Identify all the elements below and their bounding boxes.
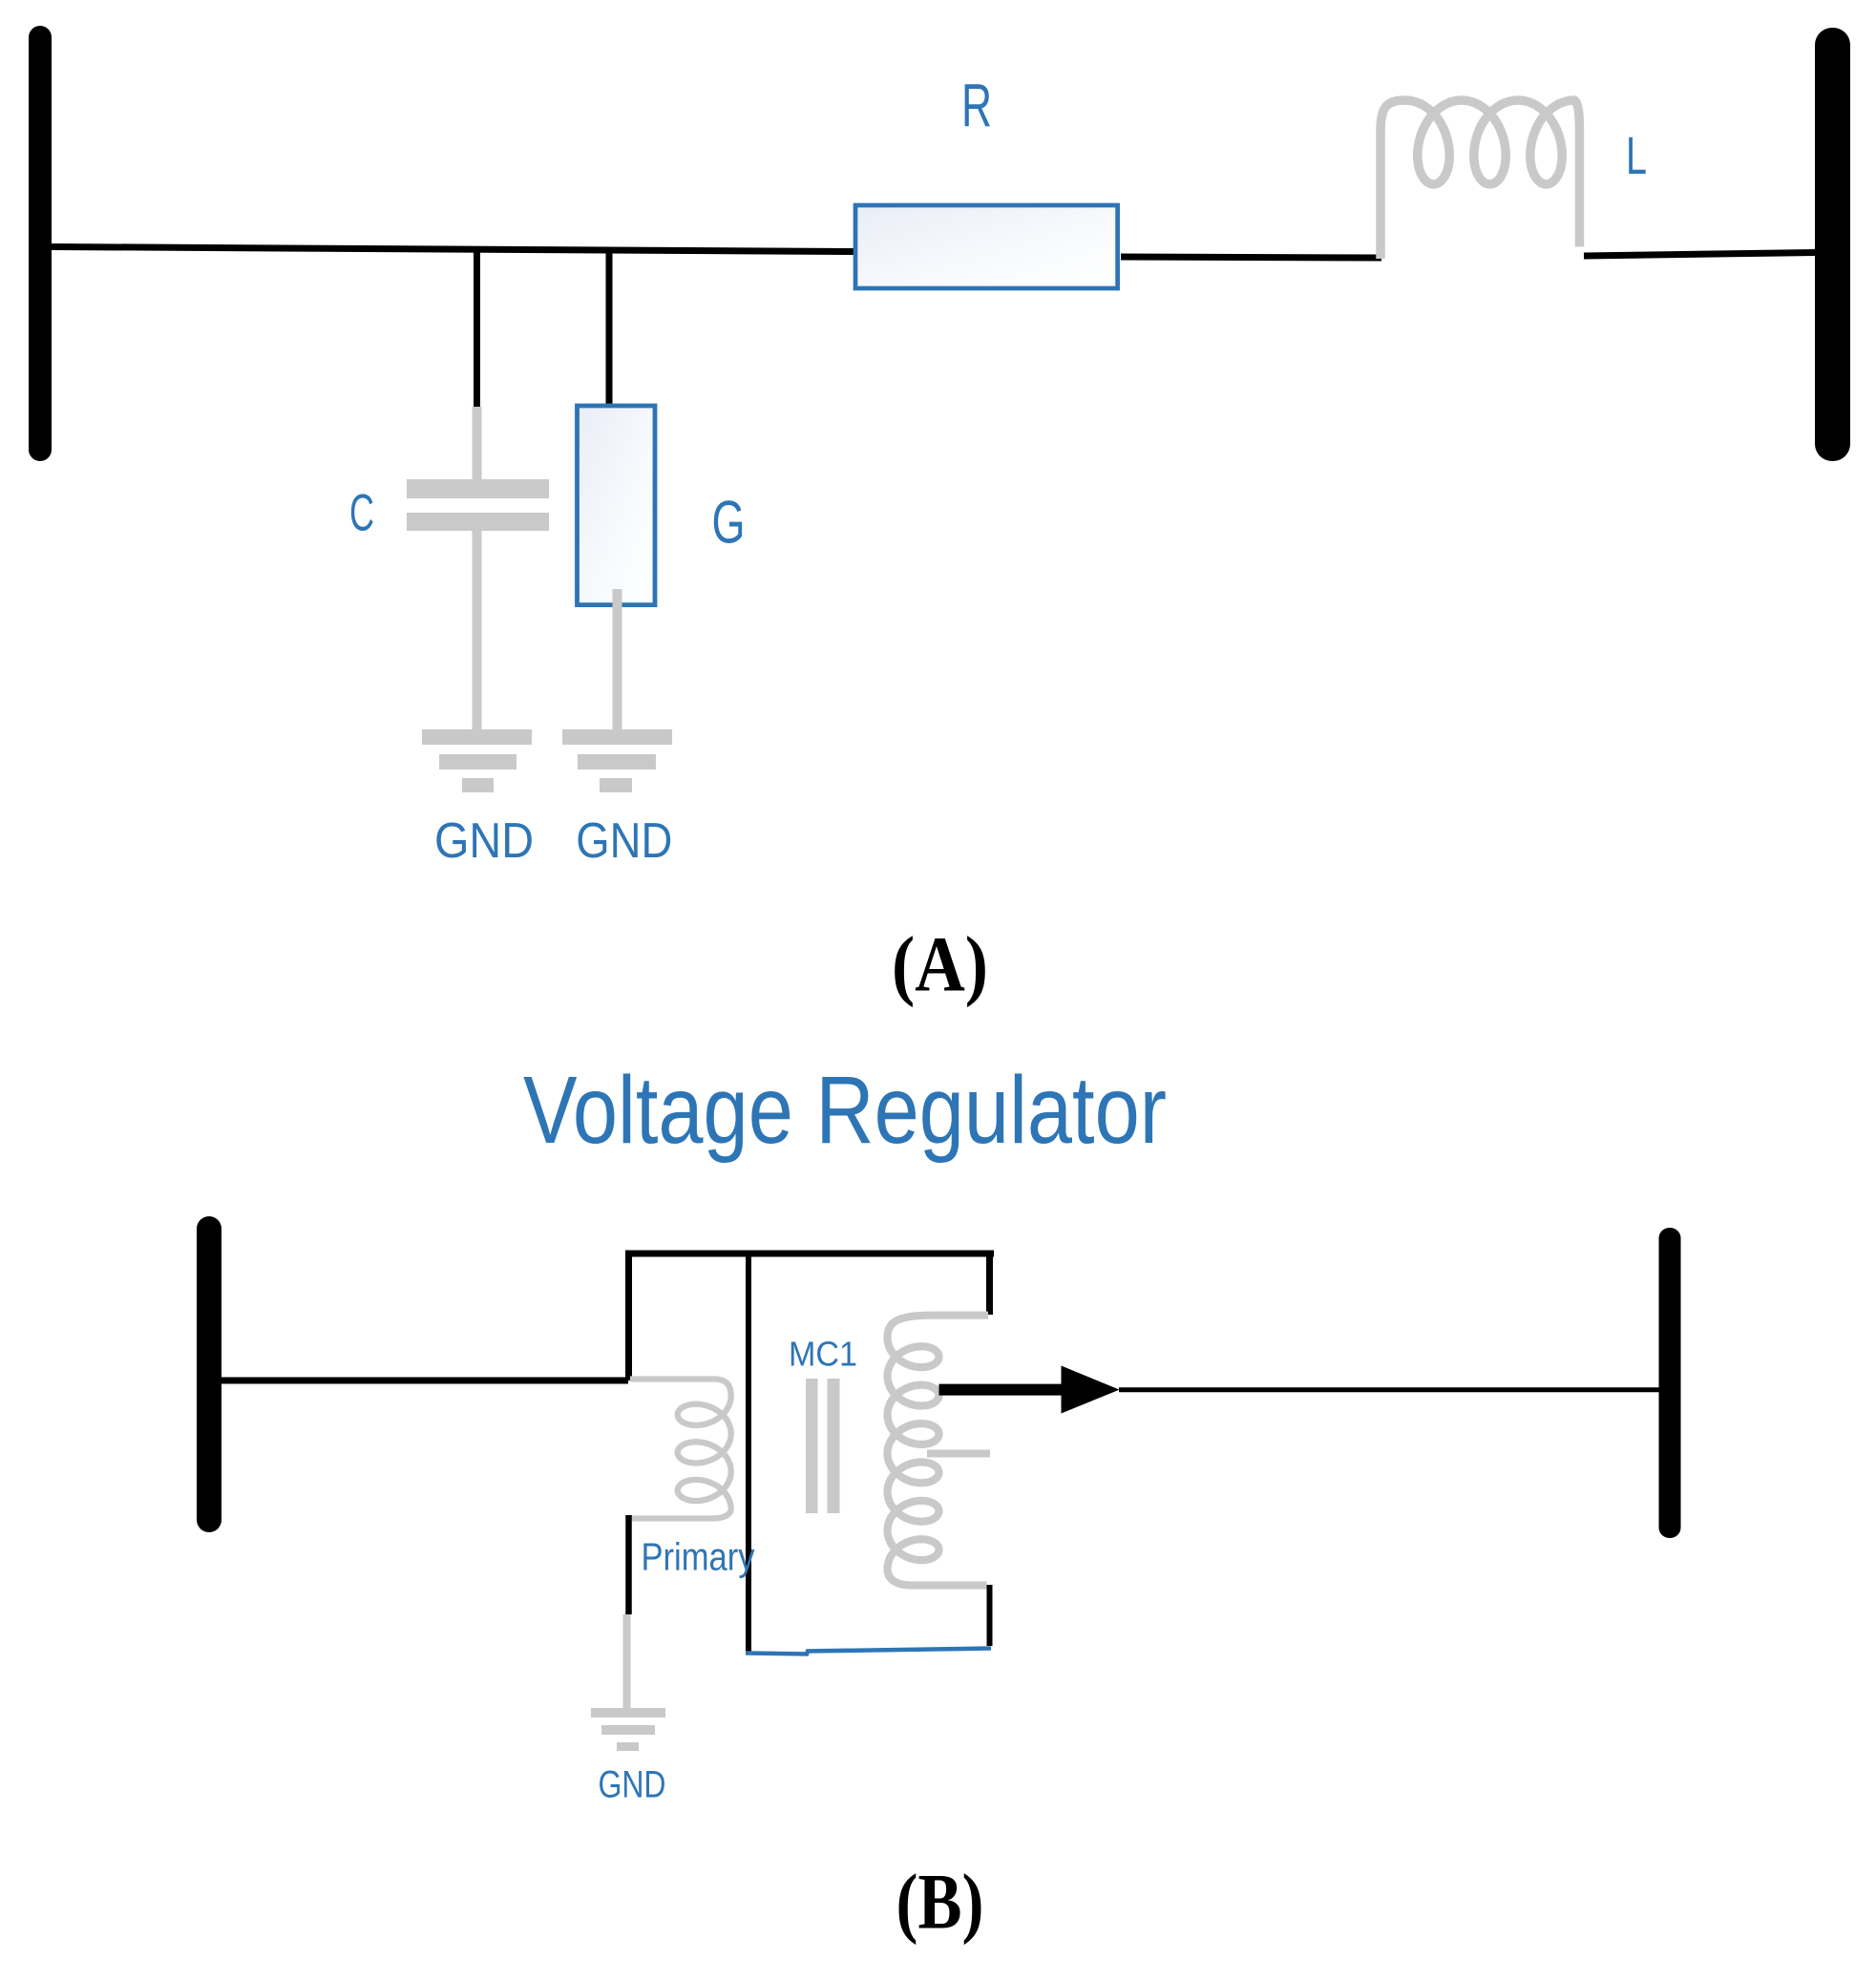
wire: primary bottom to ground lead [625,1515,632,1614]
svg-text:R: R [961,72,992,140]
wire: junction drop to capacitor C [474,247,480,409]
busbar right (section A) [1815,28,1850,461]
svg-text:C: C [349,483,374,542]
wire: inductor L to right bus [1584,253,1816,257]
ground GND (primary) [591,1708,665,1751]
transformer primary winding [630,1380,731,1519]
wire: secondary bottom stub [987,1585,993,1646]
wire: top link [625,1251,994,1257]
wire: left bus to resistor R [52,247,855,252]
wire: riser at primary top [625,1251,632,1381]
svg-text:L: L [1626,125,1647,185]
ground GND (arrester branch) [562,729,672,792]
capacitor C [407,407,549,731]
svg-text:Primary: Primary [642,1535,756,1579]
svg-text:G: G [712,490,746,557]
wire: junction drop to arrester G [606,248,613,407]
busbar left (section B) [197,1216,221,1532]
svg-text:GND: GND [599,1764,666,1806]
busbar right (section B) [1659,1228,1681,1538]
centre tap (secondary) [927,1450,990,1458]
magnetic core MC1 bars [806,1379,840,1513]
wire: centre vertical (core left) [746,1254,751,1654]
svg-text:Voltage Regulator: Voltage Regulator [523,1057,1167,1164]
svg-text:(A): (A) [892,920,988,1008]
resistor R [855,205,1118,288]
lead: arrester G to ground [613,589,622,731]
wire: stub to secondary top [986,1256,993,1315]
arrester G [578,406,656,605]
arrow output of secondary [939,1366,1660,1414]
transformer secondary winding [888,1316,989,1586]
svg-text:GND: GND [576,813,672,869]
svg-text:GND: GND [434,813,534,869]
wire: left bus to primary [221,1378,628,1384]
lead to ground (B) [623,1614,631,1709]
svg-text:(B): (B) [896,1858,984,1946]
inductor L [1381,100,1580,259]
wire: resistor R to inductor L [1121,257,1381,258]
ground GND (capacitor branch) [422,729,532,792]
svg-text:MC1: MC1 [789,1335,857,1374]
blue connector (secondary bottom) [746,1649,991,1654]
busbar left (section A) [29,26,52,461]
